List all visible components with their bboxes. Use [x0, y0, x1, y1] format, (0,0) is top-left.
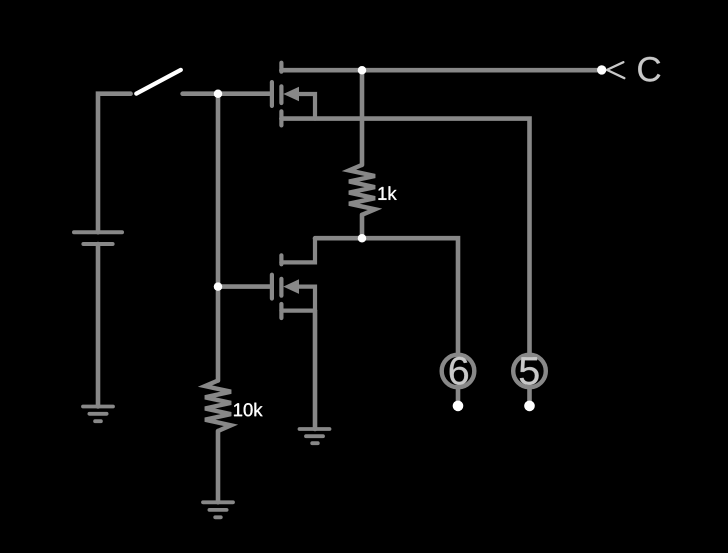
wire terminal 6 post [456, 387, 461, 406]
wire Q1 source to terminal 5 [281, 119, 529, 355]
terminal 6 circle [442, 355, 475, 388]
resistor R2 10k [205, 381, 231, 432]
ground (resistor R2) [203, 502, 233, 517]
terminal 5 circle [513, 355, 546, 388]
terminal 6 post dot [453, 401, 464, 412]
node junction dot [358, 234, 367, 243]
label 5 [520, 357, 539, 385]
wire switch to gate Q1 [183, 91, 270, 96]
resistor R1 1k [349, 165, 375, 215]
wire battery negative to ground [96, 244, 101, 407]
mosfet Q2 [272, 238, 315, 318]
switch S1 lever [136, 70, 181, 94]
wire node to terminal 6 [315, 238, 458, 355]
node junction dot [214, 90, 223, 99]
ground (battery) [83, 407, 113, 422]
wire gate bus vertical [216, 94, 221, 381]
node C end dot [597, 65, 606, 74]
wire battery top to switch [98, 94, 131, 233]
battery B1 [74, 232, 122, 244]
node C chevron [607, 62, 625, 78]
wire Q2 source to ground [313, 311, 318, 429]
ground (Q2 source) [300, 429, 330, 443]
wire node to resistor R1 [360, 70, 365, 165]
label 10k [234, 403, 262, 417]
wire Q1 drain to node C [281, 68, 601, 73]
node junction dot [214, 282, 223, 291]
terminal 5 post dot [524, 401, 535, 412]
label C [638, 57, 660, 82]
label 6 [450, 357, 468, 385]
wire resistor R2 to ground [216, 431, 221, 502]
wire resistor R1 to node [360, 215, 365, 238]
mosfet Q1 [272, 63, 315, 126]
label 1k [379, 186, 397, 199]
wire node to gate Q2 [218, 284, 270, 289]
node junction dot [358, 66, 367, 75]
wire terminal 5 post [527, 387, 532, 406]
